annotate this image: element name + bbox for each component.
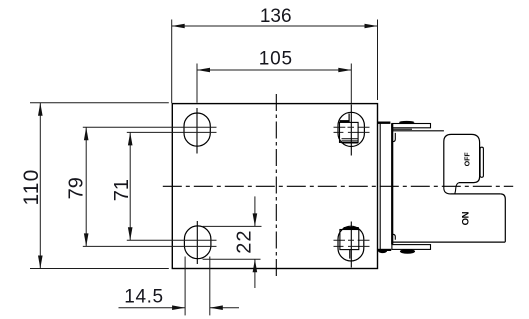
centerline hole TL <box>196 108 198 154</box>
dim 110: extension line top <box>30 102 169 104</box>
dim 105: dimension line <box>197 69 351 71</box>
dim 14.5: arrow pointing left <box>210 305 223 310</box>
centerline hole TR <box>350 105 352 156</box>
svg-text:22: 22 <box>233 229 255 253</box>
hole cross line y=127.2 right <box>334 126 370 128</box>
dim 14.5: extension line left <box>184 257 186 316</box>
side view: bottom clamp flange <box>392 245 431 250</box>
hole cross line y=132.4 left (ext of dim 71) <box>127 131 217 133</box>
side view: top bolt head (dark ellipse) <box>399 121 414 124</box>
dim 14.5: dimension line left part <box>119 307 186 309</box>
hole cross line y=246.4 right <box>334 245 370 247</box>
slotted hole top-right <box>338 112 364 146</box>
dim 14.5: extension line right <box>209 257 211 316</box>
svg-text:79: 79 <box>66 177 88 199</box>
dim 105: arrow left <box>197 68 210 73</box>
side view: top clamp flange <box>392 124 431 128</box>
side view: body/head bottom edge <box>392 241 505 243</box>
dim 105: arrow right <box>338 68 351 73</box>
dim 110: arrow up <box>38 103 43 116</box>
hole cross line y=132.4 right <box>334 131 370 133</box>
horizontal centerline of plate (dash-dot) <box>163 185 513 187</box>
side view: plunger bottom-left corner <box>444 188 451 194</box>
slotted hole bottom-left <box>184 226 211 259</box>
side view: bottom hook detail <box>393 234 396 240</box>
dim 136: arrow left <box>172 24 185 29</box>
dim 22: dimension line upper <box>254 196 256 226</box>
hole cross line y=246.4 left <box>83 245 217 247</box>
dim 110: extension line bottom <box>30 268 169 270</box>
hole cross line y=240.3 left <box>127 239 217 241</box>
svg-text:OFF: OFF <box>465 152 472 167</box>
dim 71: arrow down <box>128 227 133 240</box>
dim 71: dimension line <box>129 132 131 240</box>
side view: bottom mounting surface (thick) <box>377 249 391 251</box>
vertical centerline of plate (dash-dot) <box>275 94 277 277</box>
side view: plunger button bar <box>480 147 483 177</box>
hole cross line y=127.2 left (ext of dim 79) <box>83 126 217 128</box>
dim 105: extension line left <box>196 64 198 103</box>
side view: head right edge with corner <box>500 194 505 242</box>
dim 136: extension line right <box>377 20 379 101</box>
dim 71: arrow up <box>128 132 133 145</box>
dim 14.5: dimension line right part <box>210 307 239 309</box>
dim 14.5: arrow pointing right <box>172 305 185 310</box>
dim 110: dimension line <box>39 103 41 269</box>
dim 136: extension line left <box>171 20 173 104</box>
side view: top flange lower lip <box>393 128 412 130</box>
svg-text:110: 110 <box>20 168 43 205</box>
slotted hole top-left <box>184 113 210 146</box>
dim 79: arrow down <box>84 233 89 246</box>
side view: bottom bolt head left (dark ellipse) <box>378 249 387 253</box>
side view: head top edge <box>451 193 501 195</box>
centerline hole BL <box>196 221 198 264</box>
dim 105: extension line right <box>350 64 352 104</box>
svg-text:ON: ON <box>460 211 471 225</box>
side view: top hook detail <box>393 133 396 142</box>
side view: bottom bolt head right (dark ellipse) <box>400 249 415 254</box>
hole cross line y=240.3 right <box>334 239 370 241</box>
screw in hole BR <box>340 228 359 258</box>
dim 136: arrow right <box>365 24 378 29</box>
dim 110: arrow down <box>38 256 43 269</box>
dim 22: extension line bottom <box>203 258 261 260</box>
screw in hole TR <box>340 114 359 144</box>
slotted hole bottom-right <box>338 226 364 261</box>
side view: top mounting surface (thick) <box>377 121 390 123</box>
dim 22: extension line top <box>203 225 262 227</box>
svg-text:105: 105 <box>259 49 293 70</box>
svg-text:14.5: 14.5 <box>124 286 163 307</box>
side view: rear face line of switch <box>379 123 381 249</box>
side view: plunger fillet to head <box>455 183 459 194</box>
svg-text:71: 71 <box>111 179 133 201</box>
dim 22: dimension line lower <box>254 259 256 288</box>
side view: plunger head outline <box>444 134 480 188</box>
dim 22: arrow down (tip on top ext line) <box>253 213 258 226</box>
dim 79: arrow up <box>84 127 89 140</box>
dim 136: dimension line <box>172 25 378 27</box>
side view: switch body left edge (thick) <box>391 124 393 245</box>
side view: switch body top edge <box>392 130 444 132</box>
mounting plate outline (front view) <box>172 104 377 269</box>
dim 79: dimension line <box>85 127 87 246</box>
centerline hole BR <box>350 222 352 268</box>
dim 22: arrow up (tip on bottom ext line) <box>253 259 258 272</box>
svg-text:136: 136 <box>260 6 292 27</box>
